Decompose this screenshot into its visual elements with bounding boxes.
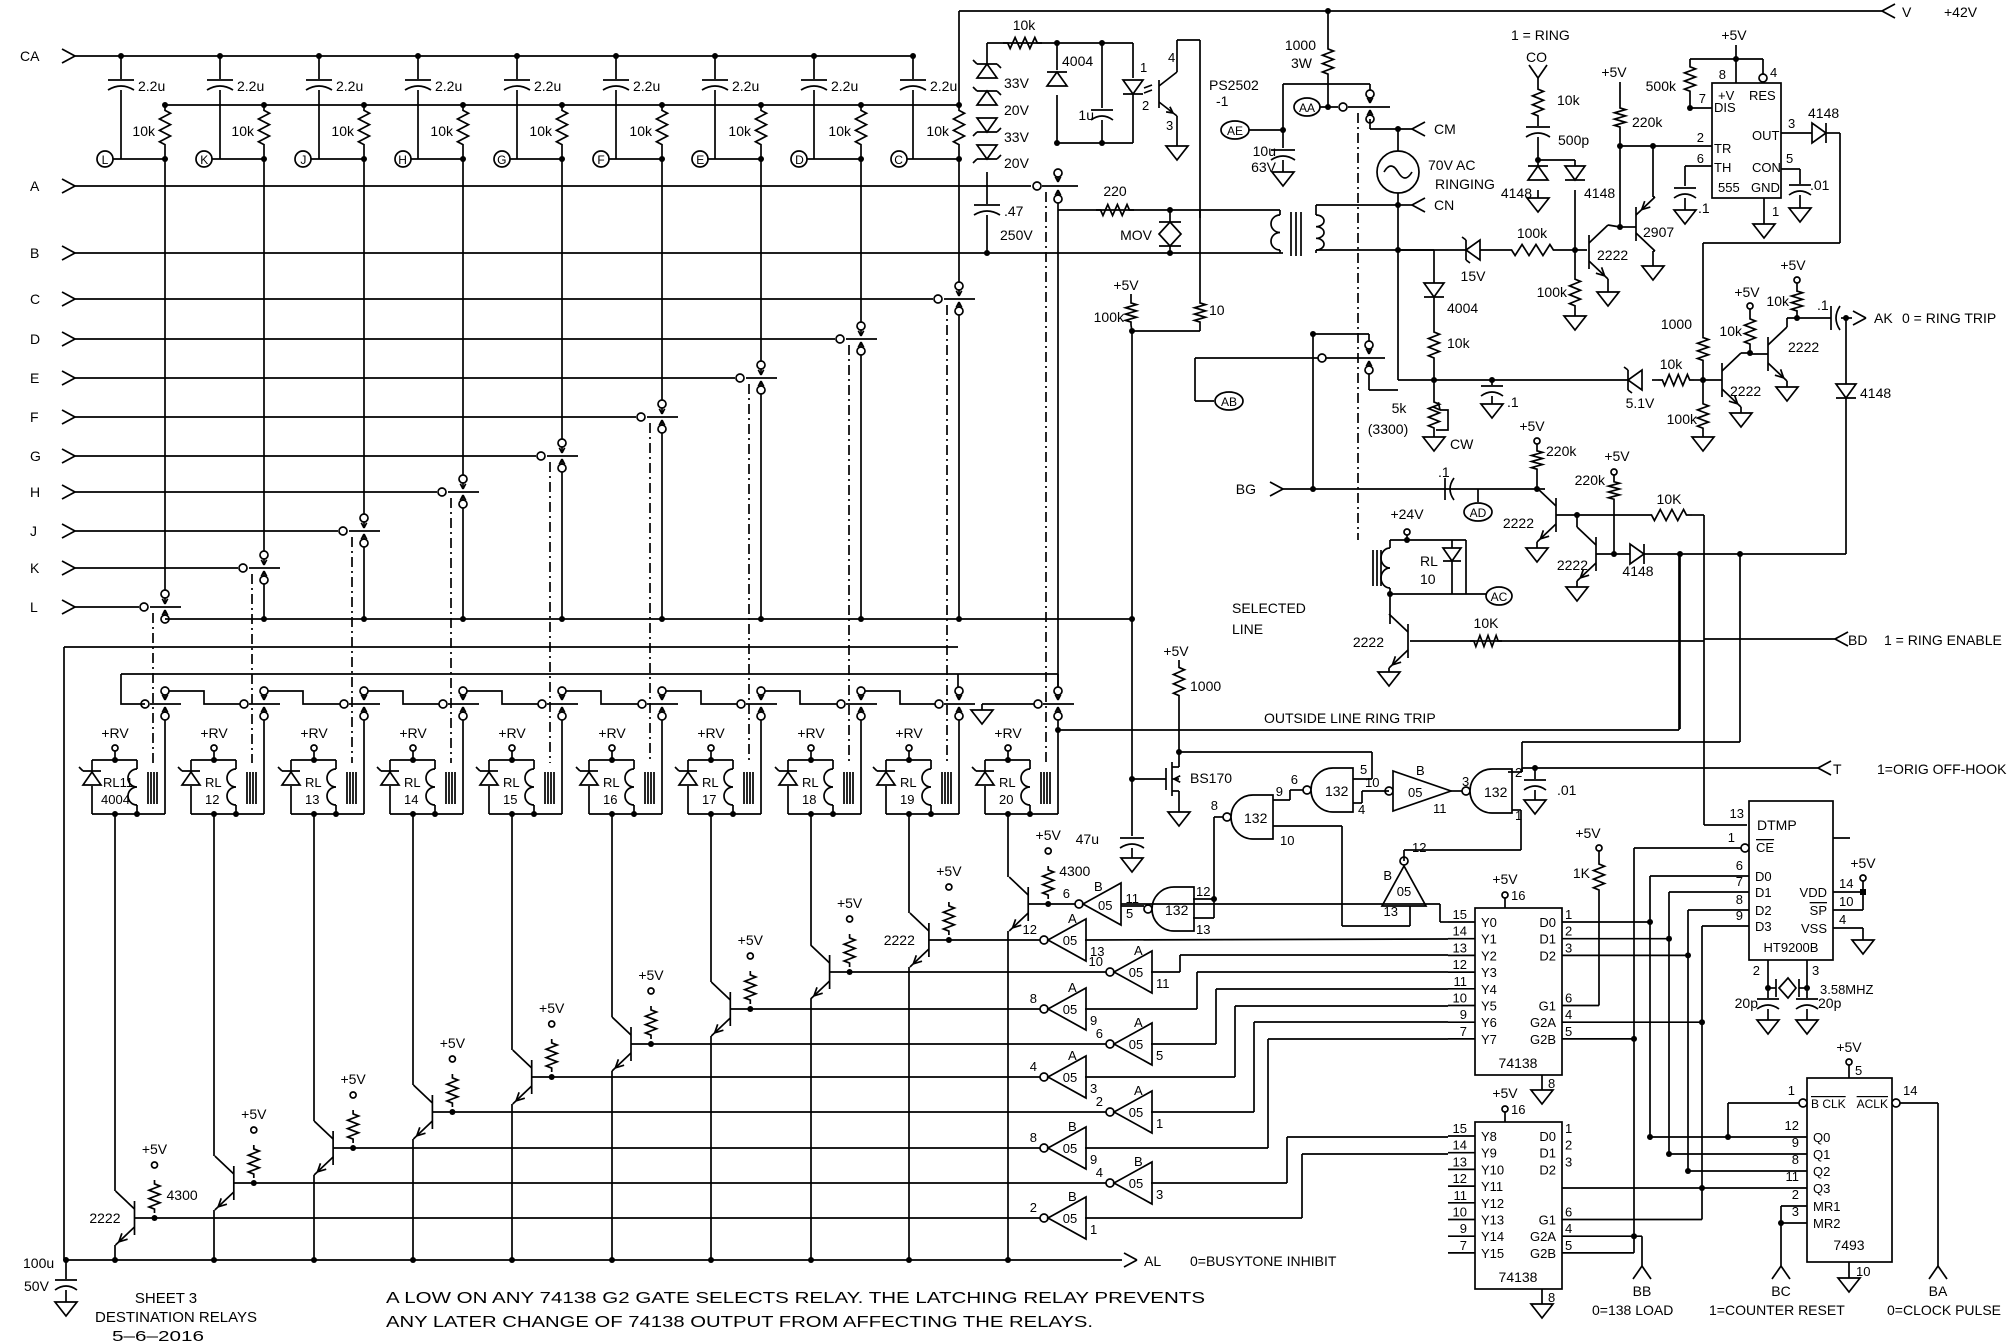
wire base row1 xyxy=(1556,512,1646,518)
svg-text:05: 05 xyxy=(1129,1105,1143,1120)
wire 555 pin6 xyxy=(1685,151,1712,166)
svg-text:B: B xyxy=(1068,1119,1077,1134)
wire relay 3 drop xyxy=(412,814,414,1085)
junction RL10 bottom xyxy=(1387,591,1393,597)
svg-text:4: 4 xyxy=(1168,50,1175,65)
wire CN row xyxy=(1395,193,1412,208)
svg-text:4: 4 xyxy=(1565,1221,1572,1236)
wire column G lower xyxy=(559,472,565,622)
svg-text:D: D xyxy=(30,331,40,347)
resistor 220k bg2 xyxy=(1575,448,1631,557)
svg-text:B: B xyxy=(30,245,39,261)
resistor 4300 Q7 xyxy=(738,932,764,1004)
note line 1 xyxy=(386,1290,1205,1307)
wire BG row xyxy=(1283,486,1545,492)
relay RL16 core xyxy=(645,772,654,804)
transistor Q5 2222 xyxy=(513,1050,532,1104)
svg-text:Y12: Y12 xyxy=(1481,1196,1504,1211)
junction bus/res 1 xyxy=(162,102,168,108)
wire column F upper xyxy=(661,150,663,400)
svg-text:D1: D1 xyxy=(1539,932,1556,947)
wire matrix top bus xyxy=(165,104,959,106)
input row F label+arrow xyxy=(30,409,75,425)
wire zigzag bus seg 7 xyxy=(765,691,837,704)
wire coil bottom to column RL20 xyxy=(1030,813,1058,815)
svg-text:G1: G1 xyxy=(1539,999,1556,1014)
svg-text:2: 2 xyxy=(1753,963,1760,978)
junction coil bottom RL15 xyxy=(509,811,537,817)
wire ak2 emitter xyxy=(1786,381,1788,387)
transistor Q8 2222 xyxy=(811,945,830,999)
wire zigzag bus seg 3 xyxy=(368,691,439,704)
+RV supply RL11 xyxy=(101,725,129,763)
junction bus/res 9 xyxy=(956,102,962,108)
svg-text:+5V: +5V xyxy=(1850,855,1876,871)
junction CA/cap 1 xyxy=(118,53,124,59)
svg-text:RL: RL xyxy=(503,775,520,790)
svg-text:OUTSIDE LINE RING TRIP: OUTSIDE LINE RING TRIP xyxy=(1264,710,1436,726)
relay RL11 core xyxy=(148,772,157,804)
junction coil bottom RL17 xyxy=(708,811,736,817)
dash-dot actuator col D xyxy=(848,345,850,763)
svg-text:D2: D2 xyxy=(1539,1162,1556,1177)
svg-text:RL: RL xyxy=(305,775,322,790)
svg-text:+5V: +5V xyxy=(1734,284,1760,300)
svg-text:2: 2 xyxy=(1142,98,1149,113)
wire 4148b down xyxy=(1574,190,1576,250)
ground zigzag tap xyxy=(971,704,1034,724)
svg-text:20V: 20V xyxy=(1004,155,1030,171)
svg-text:3: 3 xyxy=(1166,118,1173,133)
svg-text:3: 3 xyxy=(1792,1204,1799,1219)
relay contact RL15 xyxy=(538,687,578,720)
wire AK node xyxy=(1787,315,1831,321)
resistor 100k base xyxy=(1480,225,1587,256)
svg-text:8: 8 xyxy=(1030,1130,1037,1145)
svg-text:33V: 33V xyxy=(1004,129,1030,145)
arrow CN xyxy=(1412,197,1454,213)
svg-text:Y10: Y10 xyxy=(1481,1162,1504,1177)
svg-text:1K: 1K xyxy=(1573,865,1591,881)
arrow BG xyxy=(1236,481,1283,497)
wire b05d in xyxy=(1451,774,1469,791)
+RV supply RL13 xyxy=(300,725,328,763)
inverter A05 6->5 xyxy=(1096,1015,1163,1065)
label g3 pins xyxy=(1515,765,1522,823)
label 7493 xyxy=(1811,1097,1888,1253)
wire emitter Q10 xyxy=(1005,931,1011,1263)
svg-text:+5V: +5V xyxy=(1601,64,1627,80)
svg-text:10k: 10k xyxy=(1719,323,1743,339)
wire column J lower xyxy=(361,547,367,622)
svg-text:+5V: +5V xyxy=(1780,257,1806,273)
svg-text:+42V: +42V xyxy=(1944,4,1978,20)
capacitor 2.2u #5 xyxy=(504,56,561,159)
relay RL20 coil box xyxy=(985,760,1030,814)
svg-text:Q3: Q3 xyxy=(1813,1181,1830,1196)
svg-text:B: B xyxy=(1383,868,1392,883)
wire relay 2 drop xyxy=(313,814,315,1121)
svg-text:RL: RL xyxy=(900,775,917,790)
diode relay RL15 xyxy=(476,767,498,785)
svg-text:220k: 220k xyxy=(1632,114,1663,130)
diode 4148 b xyxy=(1565,160,1615,201)
svg-text:11: 11 xyxy=(1433,801,1447,816)
svg-text:L: L xyxy=(30,599,38,615)
capacitor 20p b xyxy=(1796,988,1842,1034)
dash-dot actuator col E xyxy=(748,384,750,763)
input row K label+arrow xyxy=(30,560,75,576)
+RV supply RL15 xyxy=(498,725,526,763)
svg-text:+RV: +RV xyxy=(697,725,725,741)
resistor 10 xfmr xyxy=(1195,300,1225,325)
svg-text:2.2u: 2.2u xyxy=(138,78,165,94)
svg-text:RL11: RL11 xyxy=(103,775,133,790)
svg-text:OUT: OUT xyxy=(1752,128,1780,143)
resistor 4300 Q8 xyxy=(837,895,863,967)
wire ak1 base xyxy=(1703,379,1722,381)
input row J label+arrow xyxy=(30,523,75,539)
arrow AK xyxy=(1853,310,1996,326)
wire D to column xyxy=(807,156,864,162)
wire relay 5 drop xyxy=(611,814,613,1017)
node G circle xyxy=(494,151,510,167)
relay contact RL19 xyxy=(935,687,975,720)
wire row D xyxy=(75,338,835,340)
wire HT pin2 xyxy=(1753,960,1771,991)
IC 7493 xyxy=(1807,1078,1892,1262)
node L circle xyxy=(97,151,113,167)
svg-text:05: 05 xyxy=(1063,1141,1077,1156)
svg-text:05: 05 xyxy=(1129,965,1143,980)
svg-text:7493: 7493 xyxy=(1833,1237,1864,1253)
svg-text:2.2u: 2.2u xyxy=(237,78,264,94)
svg-text:10u: 10u xyxy=(1253,143,1276,159)
wire zigzag bus seg 9 xyxy=(957,674,959,687)
junction bus/res 2 xyxy=(261,102,267,108)
wire col9 to top rail xyxy=(958,11,960,105)
wire OUT route xyxy=(1703,133,1840,334)
svg-text:+5V: +5V xyxy=(1036,827,1062,843)
svg-text:A: A xyxy=(1134,1015,1143,1030)
svg-text:11: 11 xyxy=(1156,976,1170,991)
diode relay RL18 xyxy=(775,767,797,785)
svg-text:CM: CM xyxy=(1434,121,1456,137)
svg-text:A LOW ON ANY 74138 G2 GATE SEL: A LOW ON ANY 74138 G2 GATE SELECTS RELAY… xyxy=(386,1290,1205,1307)
svg-text:D1: D1 xyxy=(1755,885,1772,900)
svg-text:.01: .01 xyxy=(1810,177,1830,193)
contact A row xyxy=(1033,169,1078,203)
wire base Q5 xyxy=(532,1074,1040,1080)
junction bus/res 4 xyxy=(460,102,466,108)
wire CM row xyxy=(1370,119,1412,132)
svg-text:12: 12 xyxy=(1023,922,1037,937)
ground 4148 a xyxy=(1527,190,1549,212)
junction bus/res 5 xyxy=(559,102,565,108)
transistor Q4 2222 xyxy=(413,1085,432,1139)
wire coil bottom to column RL13 xyxy=(336,813,364,815)
resistor 500k xyxy=(1646,59,1696,111)
capacitor 1u xyxy=(1078,43,1113,143)
svg-text:11: 11 xyxy=(1454,1188,1468,1203)
wire emitter Q6 xyxy=(609,1071,615,1263)
capacitor 20p a xyxy=(1735,988,1779,1034)
node F circle xyxy=(593,151,609,167)
svg-text:2222: 2222 xyxy=(1503,515,1534,531)
svg-text:5–6–2016: 5–6–2016 xyxy=(112,1328,204,1343)
svg-text:MOV: MOV xyxy=(1120,227,1153,243)
wire G to column xyxy=(510,156,565,162)
resistor 10k col9 xyxy=(926,105,964,150)
wire coil bottom to column RL19 xyxy=(931,813,959,815)
svg-text:BA: BA xyxy=(1929,1283,1948,1299)
svg-text:10k: 10k xyxy=(1557,92,1581,108)
wire zener stack top xyxy=(986,43,988,64)
wire 2907 collector xyxy=(1653,251,1655,266)
label DESTINATION RELAYS xyxy=(95,1309,257,1326)
wire emitter Q4 xyxy=(410,1139,416,1263)
label RL 18 xyxy=(802,775,819,807)
inverter B05 d xyxy=(1365,763,1451,816)
wire contact to coil RL14 xyxy=(462,720,464,814)
svg-text:20p: 20p xyxy=(1818,995,1842,1011)
resistor 1000 3W xyxy=(1285,11,1334,107)
svg-text:13: 13 xyxy=(1453,940,1467,955)
svg-text:RES: RES xyxy=(1749,88,1776,103)
svg-text:11: 11 xyxy=(1786,1169,1800,1184)
inverter B05 4->3 xyxy=(1096,1154,1163,1204)
svg-text:10k: 10k xyxy=(828,123,852,139)
svg-text:RL: RL xyxy=(802,775,819,790)
contact D (relay RL12) xyxy=(836,322,877,355)
wire primary top xyxy=(1200,210,1280,218)
capacitor .01 555 xyxy=(1789,177,1830,222)
wire matrix bottom bus xyxy=(165,618,1132,620)
svg-text:10k: 10k xyxy=(529,123,553,139)
svg-text:Y8: Y8 xyxy=(1481,1129,1497,1144)
transistor Q1 2222 xyxy=(116,1191,135,1245)
wire opto collector xyxy=(1177,40,1200,72)
wire column K lower xyxy=(261,584,267,622)
svg-text:Y4: Y4 xyxy=(1481,982,1497,997)
svg-text:Y1: Y1 xyxy=(1481,932,1497,947)
svg-text:2907: 2907 xyxy=(1643,224,1674,240)
wire F to column xyxy=(609,156,665,162)
svg-text:12: 12 xyxy=(1196,884,1210,899)
wire emitter Q9 xyxy=(906,967,912,1263)
svg-text:BD: BD xyxy=(1848,632,1867,648)
inverter B05 up xyxy=(1382,840,1426,919)
wire opto emitter xyxy=(1176,116,1178,146)
svg-text:15: 15 xyxy=(1453,907,1467,922)
svg-text:+RV: +RV xyxy=(797,725,825,741)
junction bus/res 3 xyxy=(361,102,367,108)
svg-text:SHEET 3: SHEET 3 xyxy=(135,1290,197,1307)
label 555 pins xyxy=(1714,88,1781,195)
svg-text:E: E xyxy=(696,153,704,167)
wire zigzag bus seg 5 xyxy=(566,691,638,704)
resistor 10k mid xyxy=(1429,297,1471,380)
IC 74138 #2 xyxy=(1448,1085,1572,1318)
wire relay 8 drop xyxy=(908,814,910,913)
transistor 2222 r1 xyxy=(1589,225,1628,279)
inverter B05 a xyxy=(1063,879,1133,925)
wire g4 in xyxy=(1193,896,1217,918)
route Y8 xyxy=(1151,1137,1448,1183)
wire 555 pin3 OUT xyxy=(1781,116,1812,133)
svg-text:Y15: Y15 xyxy=(1481,1246,1504,1261)
transformer core xyxy=(1291,212,1301,256)
relay RL10 coil xyxy=(1381,540,1390,594)
svg-text:D1: D1 xyxy=(1539,1146,1556,1161)
wire BD row xyxy=(1410,640,1704,642)
svg-text:4004: 4004 xyxy=(1062,53,1093,69)
svg-text:20: 20 xyxy=(999,792,1013,807)
svg-text:10: 10 xyxy=(1453,991,1467,1006)
wire G2A2 row xyxy=(1562,1236,1642,1266)
svg-text:HT9200B: HT9200B xyxy=(1764,940,1819,955)
svg-text:2222: 2222 xyxy=(89,1210,120,1226)
node C circle xyxy=(891,151,907,167)
resistor 10k col1 xyxy=(132,105,170,150)
contact C (relay RL11) xyxy=(934,282,975,315)
junction coil bottom RL11 xyxy=(112,811,140,817)
wire CN column xyxy=(1397,250,1399,380)
inverter A05 4->3 xyxy=(1030,1048,1097,1098)
dash-dot actuator col K xyxy=(251,574,253,763)
zener 20V a xyxy=(973,87,1030,118)
svg-text:.1: .1 xyxy=(1507,394,1519,410)
wire 555 pin2 xyxy=(1697,130,1704,145)
wire AL line xyxy=(1124,1253,1137,1267)
wire relay area top line xyxy=(64,646,958,648)
wire VSS xyxy=(1833,912,1863,940)
label AL xyxy=(1144,1253,1337,1269)
route Y2 xyxy=(1151,955,1448,972)
diode relay RL11 xyxy=(79,767,101,785)
mosfet BS170 xyxy=(1166,752,1232,812)
relay contact RL13 xyxy=(340,687,380,720)
svg-text:+5V: +5V xyxy=(539,1000,565,1016)
node K circle xyxy=(196,151,212,167)
label RL 15 xyxy=(503,775,520,807)
wire ak1 emitter xyxy=(1740,407,1742,413)
arrow T xyxy=(1818,761,2007,777)
relay RL18 coil xyxy=(824,769,833,805)
svg-text:10k: 10k xyxy=(1660,356,1684,372)
svg-text:+5V: +5V xyxy=(1575,825,1601,841)
input row E label+arrow xyxy=(30,370,75,386)
connector BA xyxy=(1887,1266,2001,1318)
resistor 1000 bs xyxy=(1163,643,1221,755)
junction bus/res 8 xyxy=(858,102,864,108)
svg-text:A: A xyxy=(1068,911,1077,926)
transistor 2222 ak2 xyxy=(1768,327,1819,381)
inverter B05 8->9 xyxy=(1030,1119,1097,1169)
wire row J xyxy=(75,530,338,532)
nand 132 g3 xyxy=(1462,769,1512,813)
ground bg2 xyxy=(1566,587,1588,601)
resistor 10k col4 xyxy=(430,105,468,150)
wire col 1058 xyxy=(1057,210,1059,687)
svg-text:+RV: +RV xyxy=(498,725,526,741)
wire row B end xyxy=(1167,250,1283,256)
wire coil bottom to column RL14 xyxy=(435,813,463,815)
wire contact to coil RL11 xyxy=(164,720,166,814)
ground 47u xyxy=(1121,858,1143,872)
svg-text:LINE: LINE xyxy=(1232,621,1263,637)
wire emitter Q7 xyxy=(708,1036,714,1263)
resistor 10k col5 xyxy=(529,105,567,150)
wire rl10 emitter xyxy=(1388,668,1390,672)
wire base ak2 xyxy=(1750,353,1768,355)
relay RL15 coil box xyxy=(489,760,534,814)
capacitor 2.2u #4 xyxy=(405,56,462,159)
svg-text:+5V: +5V xyxy=(638,967,664,983)
wire Q3 xyxy=(1562,1169,1807,1188)
wire emitter Q1 xyxy=(112,1245,118,1263)
wire HT D2 xyxy=(1685,892,1749,1174)
dash-dot actuator col G xyxy=(549,462,551,763)
wire column L lower xyxy=(162,616,168,623)
diode relay RL17 xyxy=(675,767,697,785)
svg-text:9: 9 xyxy=(1276,784,1283,799)
svg-text:H: H xyxy=(30,484,40,500)
contact H (relay RL16) xyxy=(438,475,479,508)
ground opto xyxy=(1166,146,1188,160)
capacitor .1 row xyxy=(1481,377,1519,410)
wire row C xyxy=(75,298,933,300)
node AD xyxy=(1464,489,1492,521)
svg-text:2.2u: 2.2u xyxy=(534,78,561,94)
transistor Q6 2222 xyxy=(612,1017,631,1071)
svg-text:250V: 250V xyxy=(1000,227,1033,243)
relay RL14 coil box xyxy=(390,760,435,814)
svg-text:A: A xyxy=(1134,943,1143,958)
wire CE/BB vertical xyxy=(1562,848,1637,1253)
svg-text:33V: 33V xyxy=(1004,75,1030,91)
input row A label+arrow xyxy=(30,178,75,194)
svg-text:AA: AA xyxy=(1299,101,1315,115)
+RV supply RL20 xyxy=(994,725,1022,763)
junction CA/cap 3 xyxy=(316,53,322,59)
svg-text:13: 13 xyxy=(305,792,319,807)
svg-text:6: 6 xyxy=(1291,772,1298,787)
wire MR2 xyxy=(1781,1204,1807,1223)
svg-text:Y11: Y11 xyxy=(1481,1179,1503,1194)
nand 132 g1 xyxy=(1223,795,1273,839)
svg-text:70V AC: 70V AC xyxy=(1428,157,1475,173)
svg-text:ANY LATER CHANGE OF 74138 OUTP: ANY LATER CHANGE OF 74138 OUTPUT FROM AF… xyxy=(386,1314,1093,1331)
wire column G upper xyxy=(561,150,563,439)
svg-text:DESTINATION RELAYS: DESTINATION RELAYS xyxy=(95,1309,257,1326)
svg-text:MR1: MR1 xyxy=(1813,1199,1840,1214)
svg-text:1: 1 xyxy=(1772,204,1779,219)
wire base row2b xyxy=(1596,553,1630,555)
label RL 16 xyxy=(603,775,620,807)
diode 4004 mid xyxy=(1398,250,1478,316)
svg-text:7: 7 xyxy=(1460,1024,1467,1039)
svg-text:2222: 2222 xyxy=(1730,383,1761,399)
relay RL15 core xyxy=(545,772,554,804)
note line 2 xyxy=(386,1314,1093,1331)
route Y9 xyxy=(1085,1154,1448,1218)
svg-text:1: 1 xyxy=(1515,808,1522,823)
input row G label+arrow xyxy=(30,448,75,464)
svg-text:BC: BC xyxy=(1771,1283,1790,1299)
relay RL17 core xyxy=(744,772,753,804)
optocoupler LED xyxy=(1123,43,1152,143)
